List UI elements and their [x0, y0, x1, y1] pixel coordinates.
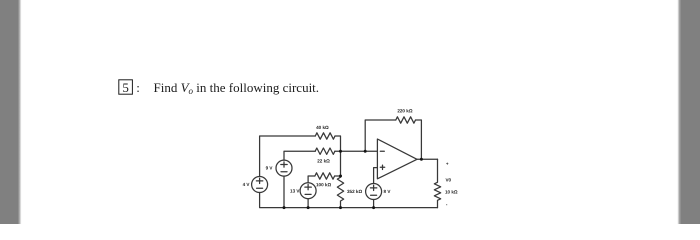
- wire: feedback left vertical from node up: [365, 120, 396, 151]
- svg-text:8 V: 8 V: [383, 189, 391, 194]
- wire: bottom ground rail: [260, 193, 438, 208]
- op-amp minus symbol: [380, 150, 384, 152]
- wire: row3 left segment (13V top to 100k): [308, 176, 315, 183]
- svg-text:4 V: 4 V: [243, 182, 251, 187]
- wire: plus input stub to 8V source: [374, 168, 378, 184]
- wire: 9V bottom to rail: [283, 176, 285, 208]
- junction dots: [283, 150, 423, 209]
- svg-text:13 V: 13 V: [290, 188, 300, 193]
- node: rail 352k: [339, 206, 342, 209]
- wire: row3 right segment to node vertical: [335, 175, 341, 177]
- node: feedback tap on inverting wire: [364, 150, 367, 153]
- svg-text:-: -: [446, 202, 448, 207]
- voltage source V 13V circle: [300, 183, 316, 199]
- wire: node vertical joining rows 1-3: [340, 151, 342, 176]
- svg-text:5: 5: [122, 80, 129, 95]
- right gray sidebar: [677, 0, 700, 224]
- node: rail 8V: [372, 206, 375, 209]
- svg-text:10 kΩ: 10 kΩ: [445, 190, 458, 195]
- svg-text:352 kΩ: 352 kΩ: [347, 189, 362, 194]
- voltage source V 8V circle: [366, 184, 382, 200]
- component value labels: [243, 108, 458, 207]
- svg-text:100 kΩ: 100 kΩ: [316, 182, 331, 187]
- problem number box: [119, 80, 133, 95]
- node: output / feedback junction: [420, 158, 423, 161]
- svg-text:220 kΩ: 220 kΩ: [397, 108, 412, 113]
- svg-text:Find Vo in the following circu: Find Vo in the following circuit.: [154, 80, 320, 96]
- svg-text:+: +: [446, 161, 449, 166]
- resistor R 100k zigzag: [315, 173, 335, 179]
- node: rail 13V: [307, 206, 310, 209]
- op-amp triangle: [377, 139, 417, 179]
- node: row1/row2 junction: [339, 150, 342, 153]
- resistor R 220k zigzag: [396, 117, 416, 123]
- wire: feedback right corner down to output: [416, 120, 422, 159]
- svg-text:9 V: 9 V: [266, 165, 274, 170]
- svg-text:22 kΩ: 22 kΩ: [317, 158, 330, 163]
- wire: 8V bottom to rail: [373, 200, 375, 208]
- resistor R 40k zigzag: [315, 133, 335, 139]
- wire: row1 right segment + corner down to node: [335, 136, 341, 151]
- wire: row1 left segment (4V top to 40k): [260, 136, 316, 177]
- node: rail 9V: [283, 206, 286, 209]
- resistor R 22k zigzag: [315, 148, 335, 154]
- op-amp plus symbol: [380, 165, 384, 169]
- voltage source V 9V circle: [276, 160, 292, 176]
- wire: output from apex right and down: [417, 158, 438, 160]
- node: row3 / 352k junction: [339, 175, 342, 178]
- resistor R 10k vertical zigzag: [434, 159, 440, 207]
- left gray sidebar: [0, 0, 21, 224]
- wire: 13V bottom to rail: [307, 199, 309, 208]
- svg-text:V0: V0: [445, 178, 451, 183]
- wire: row2 left segment (9V top to 22k): [284, 151, 315, 160]
- svg-text:40 kΩ: 40 kΩ: [316, 125, 329, 130]
- svg-text::: :: [136, 80, 140, 95]
- voltage source V 4V circle: [252, 177, 268, 193]
- resistor R 352k vertical zigzag to ground rail: [337, 176, 343, 208]
- wire: inverting node wire to op-amp minus input: [335, 150, 378, 152]
